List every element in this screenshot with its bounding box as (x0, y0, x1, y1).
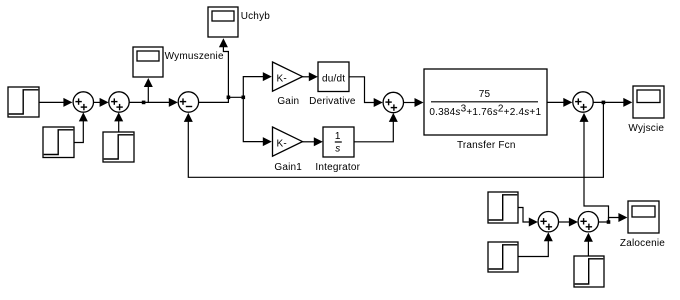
junction node before Wymuszenie branch (142, 101, 146, 105)
scope Wyjscie (633, 86, 664, 118)
wire junction up to Sum5 bottom (584, 115, 609, 223)
step source Step5 (488, 242, 518, 272)
wire junction to Zalocenie scope (609, 218, 620, 221)
scope Uchyb (208, 7, 238, 37)
svg-text:Uchyb: Uchyb (241, 11, 271, 22)
gain Gain1 (273, 127, 303, 156)
arrowhead into Sum1 bottom (79, 112, 88, 121)
svg-text:Wymuszenie: Wymuszenie (165, 51, 224, 62)
sum Sum1 (73, 92, 93, 112)
wire Sum7 output to junction (599, 221, 609, 223)
arrowhead into Wymuszenie scope (144, 78, 153, 87)
svg-text:Gain1: Gain1 (274, 162, 302, 173)
arrowhead into Sum4 bottom (389, 113, 398, 122)
svg-text:Wyjscie: Wyjscie (628, 123, 664, 134)
sum Sum5 (573, 92, 593, 112)
wire Gain1 to Integrator (303, 141, 315, 143)
wire Sum1 to Sum2 (94, 101, 101, 103)
svg-text:Integrator: Integrator (315, 162, 360, 173)
step source Step3 (103, 132, 134, 162)
svg-text:1: 1 (335, 131, 341, 142)
svg-text:K-: K- (277, 73, 287, 84)
block Derivative (318, 62, 349, 92)
wire Derivative to Sum4 (349, 77, 375, 103)
svg-text:du/dt: du/dt (322, 74, 345, 85)
scope Zalocenie (628, 201, 659, 233)
wire Transfer Fcn to Sum5 (547, 101, 564, 103)
block Transfer Fcn (424, 69, 547, 135)
arrowhead into Sum6 bottom (544, 232, 553, 241)
wire Sum2 to Sum3 (129, 101, 170, 103)
wire Sum6 to Sum7 (559, 221, 570, 223)
wire Step6 to Sum7 bottom (587, 235, 589, 257)
arrowhead into Gain (263, 72, 272, 81)
sum Sum2 (109, 92, 129, 112)
svg-text:s: s (335, 144, 340, 155)
block Integrator (323, 127, 354, 157)
svg-text:K-: K- (277, 138, 287, 149)
step source Step1 (8, 87, 39, 117)
arrowhead into Sum1 left (63, 98, 72, 107)
wire up to Uchyb scope (223, 47, 228, 96)
arrowhead into Zalocenie scope (618, 213, 627, 222)
junction node Gain branch (242, 96, 246, 100)
wire Step4 to Sum6 (518, 208, 530, 223)
wire Step1 to Sum1 (39, 101, 65, 103)
arrowhead into Sum5 left (563, 98, 572, 107)
svg-text:Zalocenie: Zalocenie (620, 238, 665, 249)
wire Sum4 to Transfer Fcn (404, 102, 416, 104)
wire to Gain input (243, 77, 263, 98)
junction node output (602, 101, 606, 105)
sum Sum7 (578, 212, 598, 232)
arrowhead into Gain1 (263, 137, 272, 146)
svg-text:Derivative: Derivative (309, 96, 356, 107)
arrowhead into Sum4 left (374, 98, 383, 107)
wire Integrator to Sum4 bottom (354, 115, 393, 142)
arrowhead into Sum7 left (569, 218, 578, 227)
arrowhead into Sum5 bottom (580, 113, 589, 122)
step source Step6 (574, 256, 604, 287)
wire Sum3 output to branch corner (199, 97, 244, 102)
wire branch up to Wymuszenie scope (147, 87, 149, 102)
wire Step2 to Sum1 bottom (74, 114, 83, 143)
step source Step4 (488, 192, 518, 223)
wire feedback from output node to Sum3 bottom (188, 102, 603, 177)
junction node disturbance (607, 220, 611, 224)
arrowhead into Sum2 bottom (114, 112, 123, 121)
arrowhead into Transfer Fcn (415, 98, 424, 107)
wire Step5 to Sum6 bottom (518, 234, 548, 257)
arrowhead into Sum6 left (529, 218, 538, 227)
sum Sum6 (538, 212, 558, 232)
step source Step2 (43, 127, 74, 158)
sum Sum4 (383, 92, 403, 112)
wire to Gain1 input (243, 97, 263, 141)
wire Step3 to Sum2 bottom (118, 114, 120, 132)
svg-text:75: 75 (479, 89, 491, 100)
arrowhead into Integrator (314, 137, 323, 146)
arrowhead into Derivative (309, 72, 318, 81)
arrowhead into Sum2 left (100, 98, 109, 107)
svg-text:Transfer Fcn: Transfer Fcn (457, 140, 516, 151)
wire Gain to Derivative (303, 76, 310, 78)
gain Gain (273, 62, 303, 91)
arrowhead into Sum7 bottom (584, 233, 593, 242)
svg-text:Gain: Gain (277, 96, 299, 107)
arrowhead into Uchyb scope (219, 38, 228, 47)
arrowhead into Sum3 left (169, 98, 178, 107)
wire Sum5 to Wyjscie scope (593, 101, 624, 103)
arrowhead into Wyjscie scope (623, 98, 632, 107)
arrowhead into Sum3 bottom (184, 113, 193, 122)
scope Wymuszenie (133, 47, 163, 77)
sum Sum3 (178, 92, 198, 112)
junction node Uchyb branch (227, 96, 231, 100)
